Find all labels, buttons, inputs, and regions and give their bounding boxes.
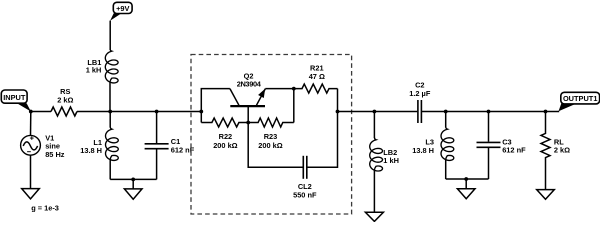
- wire input junction to RS: [31, 111, 51, 113]
- label RL 2 kOhm: [554, 138, 570, 155]
- flag INPUT: [1, 90, 31, 112]
- node L3C3 ground junction: [464, 177, 468, 181]
- capacitor C1: [145, 112, 169, 180]
- label L1 13.8 H: [80, 138, 102, 155]
- svg-text:2 kΩ: 2 kΩ: [57, 96, 73, 105]
- inductor L3: [441, 112, 454, 180]
- svg-text:1.2 µF: 1.2 µF: [409, 89, 431, 98]
- label V1 sine 85 Hz: [45, 134, 65, 159]
- svg-text:+9V: +9V: [116, 4, 129, 13]
- wire junction to V1: [30, 112, 32, 136]
- svg-text:85 Hz: 85 Hz: [45, 150, 65, 159]
- label R21 47 Ohm: [309, 64, 325, 82]
- wire input node up to collector: [201, 89, 230, 112]
- wire node B to C1 node: [110, 111, 156, 113]
- ground under V1: [22, 189, 40, 199]
- wire base node down to CL2: [248, 123, 303, 168]
- wire V1 to ground: [30, 155, 32, 188]
- node LB2 top: [373, 110, 377, 114]
- ground under RL: [537, 190, 555, 200]
- node input junction: [29, 110, 33, 114]
- resistor R21: [294, 84, 338, 93]
- ground under LB2: [365, 212, 383, 221]
- svg-text:550 nF: 550 nF: [293, 191, 317, 200]
- label L3 13.8 H: [412, 137, 434, 154]
- ground under L3 C3: [457, 189, 475, 199]
- resistor RS: [51, 107, 77, 116]
- label LB1 1 kH: [86, 58, 102, 75]
- svg-text:1 kH: 1 kH: [383, 156, 399, 165]
- label Q2 2N3904: [237, 71, 262, 88]
- wire box output to C2: [338, 111, 418, 113]
- ground under L1 C1: [124, 189, 142, 199]
- wire RS to node B: [77, 111, 110, 113]
- svg-text:1 kH: 1 kH: [86, 66, 102, 75]
- node emitter: [292, 87, 296, 91]
- inductor L1: [106, 112, 119, 180]
- wire C2 to output flag: [422, 111, 559, 113]
- label C2 1.2 uF: [409, 81, 431, 98]
- svg-text:612 nF: 612 nF: [502, 146, 526, 155]
- svg-text:200 kΩ: 200 kΩ: [213, 141, 237, 150]
- inductor LB2: [370, 112, 383, 213]
- resistor R23: [248, 118, 294, 127]
- node C1 top: [155, 110, 159, 114]
- node Q2 base: [246, 121, 250, 125]
- wire bottom L1 to C1: [110, 178, 156, 180]
- svg-text:2N3904: 2N3904: [237, 80, 262, 89]
- node RL top: [544, 110, 548, 114]
- resistor RL: [541, 112, 550, 190]
- flag +9V: [110, 2, 132, 21]
- capacitor C3: [477, 112, 501, 180]
- node Q2 input: [199, 110, 203, 114]
- node box output: [336, 110, 340, 114]
- svg-text:RS: RS: [60, 87, 70, 96]
- voltage source V1: [21, 135, 41, 155]
- wire R23 up to emitter node: [293, 89, 295, 123]
- label CL2 550 nF: [293, 182, 317, 199]
- label g = 1e-3: [31, 204, 59, 213]
- wire emitter to node: [265, 88, 293, 90]
- dashed region box: [191, 55, 352, 215]
- wire bottom L3 to C3: [446, 178, 489, 180]
- svg-text:OUTPUT1: OUTPUT1: [563, 94, 598, 103]
- label LB2 1 kH: [383, 148, 399, 165]
- svg-text:INPUT: INPUT: [3, 93, 26, 102]
- wire R21 down to output node: [337, 89, 339, 112]
- capacitor CL2: [303, 156, 307, 179]
- node L3 top: [444, 110, 448, 114]
- flag OUTPUT1: [559, 92, 600, 111]
- inductor LB1: [105, 21, 118, 112]
- capacitor C2: [418, 100, 422, 123]
- svg-text:R23: R23: [264, 132, 278, 141]
- label R22 200 kOhm: [213, 132, 237, 150]
- svg-text:47 Ω: 47 Ω: [309, 72, 325, 81]
- label C1 612 nF: [171, 137, 195, 154]
- svg-text:13.8 H: 13.8 H: [80, 146, 102, 155]
- wire to ground L1C1: [132, 179, 134, 189]
- transistor Q2: [230, 89, 266, 123]
- svg-text:13.8 H: 13.8 H: [412, 146, 434, 155]
- wire C1 node to amplifier box: [157, 111, 202, 113]
- wire input node down to R22: [200, 112, 202, 123]
- svg-text:200 kΩ: 200 kΩ: [258, 141, 282, 150]
- label C3 612 nF: [502, 138, 526, 155]
- label RS 2 kOhm: [57, 87, 73, 105]
- svg-text:g = 1e-3: g = 1e-3: [31, 204, 59, 213]
- svg-text:2 kΩ: 2 kΩ: [554, 146, 570, 155]
- svg-text:R22: R22: [219, 132, 233, 141]
- wire CL2 to output node: [307, 112, 338, 168]
- wire to ground L3C3: [465, 179, 467, 189]
- resistor R22: [201, 118, 248, 127]
- node L1C1 ground junction: [131, 178, 135, 182]
- label R23 200 kOhm: [258, 132, 282, 150]
- node main junction B: [108, 110, 112, 114]
- node C3 top: [487, 110, 491, 114]
